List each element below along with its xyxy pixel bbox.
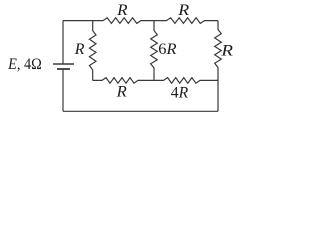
svg-text:R: R [177,2,189,19]
svg-text:4R: 4R [171,85,189,102]
svg-text:R: R [116,2,128,19]
svg-text:6R: 6R [158,41,176,58]
svg-text:R: R [116,84,127,101]
svg-text:E, 4Ω: E, 4Ω [7,56,42,73]
svg-text:R: R [74,41,85,58]
svg-text:R: R [220,43,233,60]
